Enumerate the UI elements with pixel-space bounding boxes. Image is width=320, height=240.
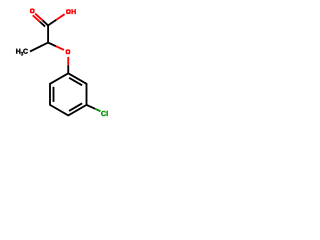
benzene ring: [50, 73, 87, 115]
aromatic double bond inner line (top-right edge): [69, 78, 82, 86]
double bond C=O (carbonyl): [35, 14, 42, 21]
atom label OH (hydroxyl): [66, 9, 71, 14]
atom label H3C (methyl): [16, 49, 20, 54]
aromatic double bond inner line (bottom-right edge): [69, 103, 82, 111]
bond C-O ether: [48, 43, 56, 47]
bond C-OH: [48, 20, 56, 26]
atom label O (carbonyl): [30, 8, 35, 13]
atom label Cl: [101, 111, 106, 116]
bond C2-C3: [47, 25, 49, 42]
aromatic double bond inner line (left edge): [53, 87, 55, 102]
bond C-CH3: [30, 43, 48, 52]
bond C-Cl: [87, 105, 96, 109]
atom label O (ether): [66, 49, 71, 54]
bond O-ring: [67, 57, 69, 65]
